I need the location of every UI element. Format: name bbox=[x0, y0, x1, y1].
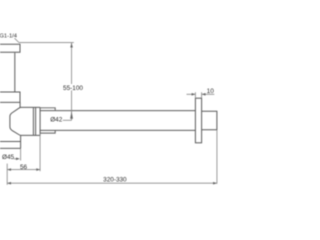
extension 320-330 right bbox=[216, 130, 218, 184]
svg-text:G1-1/4: G1-1/4 bbox=[0, 34, 17, 40]
extension below body cap bbox=[20, 148, 22, 160]
extension line top (to 55-100 dim) bbox=[19, 42, 74, 44]
pipe stub behind flange bbox=[202, 111, 217, 130]
extensions 10 bbox=[195, 92, 201, 98]
svg-text:56: 56 bbox=[20, 164, 28, 171]
extension 56 left bbox=[6, 164, 8, 185]
body shoulder below flange bbox=[19, 102, 21, 107]
mid flange (slip nut) bbox=[0, 92, 20, 102]
dim text 55-100 bbox=[63, 84, 84, 92]
svg-text:Ø42: Ø42 bbox=[50, 117, 63, 124]
dim 10 bbox=[187, 93, 215, 95]
svg-text:320-330: 320-330 bbox=[103, 176, 127, 183]
leader for G1-1/4 bbox=[15, 38, 20, 42]
horizontal pipe bbox=[40, 111, 195, 131]
svg-text:Ø45: Ø45 bbox=[2, 154, 15, 161]
sleeve bbox=[40, 108, 55, 133]
vertical inlet pipe bbox=[14, 53, 16, 92]
svg-text:55-100: 55-100 bbox=[63, 85, 83, 92]
nut ring line 1 bbox=[32, 107, 34, 135]
washer band bbox=[33, 107, 40, 135]
leader Ø45 with arrow bbox=[14, 158, 19, 160]
trap body dome nut bbox=[10, 107, 34, 135]
leader Ø42 bbox=[63, 119, 72, 121]
dim 55-100 vertical line bbox=[71, 43, 73, 120]
wall flange bbox=[195, 98, 201, 143]
top nut bbox=[0, 44, 20, 52]
svg-text:10: 10 bbox=[207, 88, 215, 95]
body lower edge bbox=[20, 135, 22, 148]
dim 320-330 bbox=[7, 182, 217, 184]
dim 56 bbox=[7, 169, 40, 171]
dim 55-100 bottom arrow bbox=[70, 111, 73, 119]
extension 56 right bbox=[39, 134, 41, 172]
nut ring line 2 bbox=[35, 107, 37, 135]
dim 55-100 top arrow bbox=[70, 43, 73, 48]
body bottom cap bbox=[0, 142, 21, 149]
